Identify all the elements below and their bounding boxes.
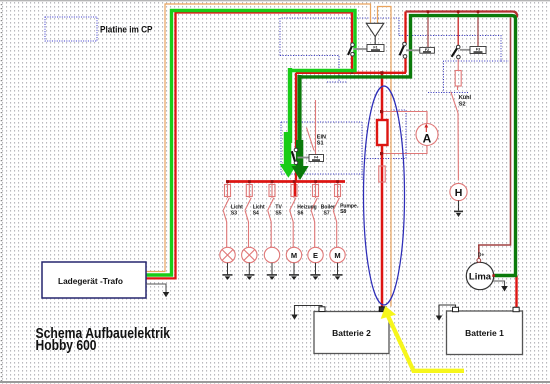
orange wire from Ladegeraet up-over to funnel	[146, 4, 371, 272]
PCB lower rectangle	[281, 122, 363, 174]
Platine im CP legend box	[45, 17, 97, 41]
left ruler edge	[1, 0, 3, 384]
relay box F4	[309, 155, 324, 162]
junction node bus branch S5	[271, 180, 274, 183]
branch Licht S4	[245, 182, 252, 248]
svg-text:E: E	[313, 251, 318, 260]
lamp E1 (Licht S3)	[220, 247, 235, 262]
motor M (Heizung) circle	[286, 247, 301, 262]
branch Heizung S6	[290, 182, 297, 248]
bright green wire Ladegeraet loop	[146, 11, 355, 276]
switch S1 pivot contacts	[294, 148, 298, 152]
svg-text:H: H	[455, 187, 463, 199]
fuse F-kuehl	[455, 71, 461, 87]
PCB boundary upper staircase	[280, 18, 501, 93]
red bus bar	[226, 180, 345, 183]
switch lever F2	[400, 45, 405, 56]
ammeter notch	[362, 110, 406, 159]
ammeter red arrow	[424, 124, 428, 132]
red top-right wire	[406, 12, 518, 18]
junction node F3 coil tap	[477, 10, 480, 13]
svg-text:Batterie 1: Batterie 1	[465, 328, 504, 338]
junction node F2 coil tap	[427, 10, 430, 13]
svg-text:S5: S5	[275, 211, 281, 217]
battery 2 box	[314, 312, 389, 354]
svg-text:F1: F1	[373, 46, 377, 50]
red coil feed F3	[477, 12, 479, 47]
relay box F3	[470, 47, 486, 54]
red feed to Kuehl switch	[457, 12, 459, 47]
junction node F1 red tee	[351, 71, 354, 74]
switch lever S1	[292, 151, 296, 163]
top edge line	[0, 0, 550, 2]
Ladegeraet ground	[146, 284, 169, 297]
Lima ground	[493, 281, 508, 292]
svg-text:M: M	[334, 251, 340, 260]
grey tail line below battery 2	[389, 354, 391, 382]
switch S2 lever	[451, 92, 458, 113]
battery 1 box	[447, 311, 523, 355]
TV load circle	[264, 247, 279, 262]
branch Pumpe S8	[333, 182, 340, 248]
svg-text:Kühl: Kühl	[459, 95, 472, 101]
dark green arrow head	[296, 140, 303, 168]
letters in load circles	[291, 251, 341, 260]
junction node bus branch S7	[314, 180, 317, 183]
grey link F3	[460, 49, 470, 51]
svg-text:S8: S8	[340, 209, 346, 215]
PCB boundary y92.5 stub	[428, 92, 468, 94]
branch Boiler S7	[311, 182, 318, 248]
svg-text:A: A	[423, 131, 432, 145]
battery 2 right terminal	[379, 307, 386, 312]
switch F1 pivot contacts	[351, 43, 355, 47]
red horizontal distribution wire	[296, 72, 406, 74]
dark red wire to Lima D+	[479, 18, 511, 259]
svg-text:S3: S3	[231, 211, 237, 217]
svg-text:S1: S1	[317, 141, 324, 147]
junction node bus branch S4	[248, 180, 251, 183]
svg-text:Batterie 2: Batterie 2	[332, 328, 371, 338]
svg-text:S4: S4	[253, 211, 259, 217]
switch lever F1	[348, 45, 353, 55]
battery 1 left terminal	[453, 307, 459, 311]
ammeter shunt wire top	[382, 112, 427, 124]
shunt resistor	[377, 120, 388, 145]
junction dot at Lima B+ terminal	[492, 274, 495, 277]
wire fuse to S2	[457, 86, 459, 90]
relay box F2	[420, 47, 435, 53]
svg-text:F4: F4	[314, 156, 318, 160]
switch lever F3	[452, 47, 458, 57]
svg-text:Hobby 600: Hobby 600	[36, 338, 97, 354]
junction node bus branch S3	[226, 180, 229, 183]
bottom edge line	[0, 381, 550, 383]
grey link F1	[354, 48, 368, 50]
red wire battery1 to green corner	[515, 276, 517, 308]
junction node ammeter tap lower	[380, 152, 383, 155]
red shunt wire to battery 2	[381, 73, 384, 307]
heater H circle	[450, 183, 467, 200]
F4 coil feed wire	[315, 100, 317, 155]
D+ pin	[477, 259, 481, 263]
svg-text:Platine im CP: Platine im CP	[100, 25, 153, 35]
motor M (Pumpe) circle	[330, 247, 345, 262]
grey link S1/F4	[298, 157, 310, 159]
bright green arrow head	[284, 132, 292, 166]
junction node bus branch S8	[336, 180, 339, 183]
red wire F2 vertical	[404, 12, 406, 73]
funnel antenna symbol	[366, 23, 384, 44]
ground symbols under loads	[223, 263, 343, 280]
wire S2 to H	[457, 113, 459, 181]
svg-text:S6: S6	[297, 211, 303, 217]
svg-text:Ladegerät -Trafo: Ladegerät -Trafo	[58, 276, 123, 286]
battery 2 ground	[291, 306, 322, 320]
svg-text:F2: F2	[425, 48, 429, 52]
red feed wire through S1 to bus	[295, 73, 296, 196]
svg-text:S7: S7	[324, 211, 330, 217]
lamp E2 (Licht S4)	[242, 247, 257, 262]
svg-text:S2: S2	[459, 102, 466, 108]
grey link F2	[406, 49, 420, 51]
fuse on shunt wire	[379, 166, 385, 182]
PCB boundary y55.5 segment	[280, 56, 339, 83]
svg-text:F3: F3	[476, 48, 480, 52]
label leader EIN S1	[307, 128, 315, 151]
junction node bus branch S6 / feed	[293, 180, 296, 183]
battery 1 ground	[436, 305, 456, 321]
switch F2 pivot contacts	[403, 42, 407, 46]
svg-text:D+: D+	[478, 253, 485, 259]
ground under H	[454, 201, 463, 218]
junction node shunt tap top	[380, 71, 383, 74]
relay box F1	[367, 45, 384, 52]
branch Licht S3: stub, fuse, lever, wire	[223, 182, 230, 248]
dark green wire Lima loop	[300, 16, 516, 276]
battery 1 right terminal	[513, 307, 519, 311]
wire kuehl switch to fuse	[457, 59, 459, 71]
switch F3 pivot contacts	[456, 45, 460, 49]
PCB boundary segment y61 right stub	[501, 60, 509, 62]
svg-text:M: M	[291, 251, 297, 260]
junction node Kuehl feed tap	[457, 10, 460, 13]
heater E (Boiler) circle	[308, 247, 323, 262]
branch TV S5	[268, 182, 275, 248]
ammeter A circle	[416, 124, 438, 146]
battery 2 left terminal	[319, 307, 325, 312]
red coil feed F2	[427, 12, 429, 48]
PCB boundary y82 stub	[327, 81, 347, 83]
orange wire funnel to battery 2	[378, 7, 392, 307]
junction node ammeter tap upper	[380, 110, 383, 113]
PCB lower right vertical	[361, 122, 363, 180]
ammeter shunt wire bottom	[382, 146, 427, 154]
svg-text:Lima: Lima	[469, 271, 492, 282]
red wire Ladegeraet loop (left)	[146, 13, 352, 279]
